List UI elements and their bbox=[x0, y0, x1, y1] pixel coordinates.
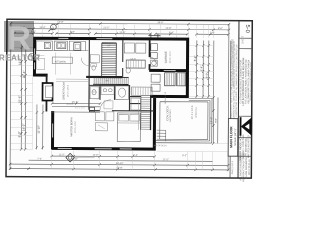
svg-text:53'-8": 53'-8" bbox=[117, 167, 123, 170]
svg-text:11'-6": 11'-6" bbox=[119, 31, 125, 34]
svg-text:SHEET: SHEET bbox=[241, 35, 244, 44]
svg-text:7'-4": 7'-4" bbox=[37, 157, 42, 160]
svg-text:LINE OF DECK: LINE OF DECK bbox=[153, 145, 168, 147]
svg-text:COV. DECK: COV. DECK bbox=[165, 106, 169, 121]
svg-text:REALTOR: REALTOR bbox=[0, 54, 40, 63]
svg-text:14'-2": 14'-2" bbox=[22, 124, 26, 132]
svg-text:15'-6": 15'-6" bbox=[18, 95, 22, 103]
svg-text:R: R bbox=[7, 20, 31, 57]
svg-text:9'-0": 9'-0" bbox=[205, 73, 209, 79]
svg-text:8'-0": 8'-0" bbox=[218, 27, 223, 30]
svg-text:2x6 DECKING: 2x6 DECKING bbox=[170, 109, 172, 122]
svg-text:44'-10": 44'-10" bbox=[116, 162, 124, 165]
svg-text:15'-2 x 18'-4: 15'-2 x 18'-4 bbox=[68, 84, 70, 97]
svg-text:10'-0 x 14'-6: 10'-0 x 14'-6 bbox=[191, 105, 194, 119]
svg-text:9'-0": 9'-0" bbox=[17, 131, 21, 137]
svg-text:21'-2": 21'-2" bbox=[103, 26, 109, 29]
svg-text:MAIN FLOOR: MAIN FLOOR bbox=[229, 126, 233, 148]
svg-text:26'-0": 26'-0" bbox=[157, 21, 163, 24]
svg-text:REV 2 05.21.19: REV 2 05.21.19 bbox=[249, 159, 251, 175]
svg-text:12'-0": 12'-0" bbox=[93, 154, 99, 157]
svg-text:5'-0": 5'-0" bbox=[210, 31, 215, 34]
svg-text:11'-2": 11'-2" bbox=[59, 153, 65, 156]
svg-text:ALL RIGHTS RESERVED: ALL RIGHTS RESERVED bbox=[239, 154, 242, 181]
svg-text:GARAGE: GARAGE bbox=[164, 51, 168, 63]
svg-text:CONTRACTOR TO VERIFY ALL DIMEN: CONTRACTOR TO VERIFY ALL DIMENSIONS PRIO… bbox=[235, 44, 238, 116]
svg-text:17'-2": 17'-2" bbox=[163, 158, 169, 161]
svg-text:6'-4": 6'-4" bbox=[199, 66, 203, 72]
svg-text:6'-2": 6'-2" bbox=[182, 154, 187, 157]
svg-text:NOOK: NOOK bbox=[66, 103, 73, 106]
svg-text:13'-6 x 14'-2: 13'-6 x 14'-2 bbox=[75, 120, 77, 133]
svg-text:53'-8": 53'-8" bbox=[57, 21, 63, 24]
svg-text:12'-4": 12'-4" bbox=[39, 26, 45, 29]
svg-text:PAGE 5 OF 9: PAGE 5 OF 9 bbox=[231, 160, 234, 174]
svg-text:MAY 2019 AS NOTED: MAY 2019 AS NOTED bbox=[247, 135, 250, 158]
svg-text:MUD: MUD bbox=[130, 58, 136, 61]
svg-text:9'-4": 9'-4" bbox=[133, 154, 138, 157]
svg-text:KITCHEN: KITCHEN bbox=[55, 61, 66, 64]
svg-text:14'-8": 14'-8" bbox=[165, 27, 171, 30]
svg-text:9'-2 x 11'-0: 9'-2 x 11'-0 bbox=[75, 107, 86, 109]
svg-text:9'-8": 9'-8" bbox=[215, 118, 218, 123]
svg-text:W.C.: W.C. bbox=[93, 92, 98, 94]
svg-text:DO NOT SCALE DRAWINGS USE WRIT: DO NOT SCALE DRAWINGS USE WRITTEN DIMS bbox=[231, 39, 234, 86]
svg-text:8'-2": 8'-2" bbox=[193, 56, 197, 62]
svg-text:5-0: 5-0 bbox=[244, 25, 250, 33]
svg-text:36" RAIL TYP: 36" RAIL TYP bbox=[164, 91, 167, 104]
svg-text:OPEN RAIL: OPEN RAIL bbox=[195, 106, 198, 118]
svg-text:MASTER BDRM: MASTER BDRM bbox=[69, 118, 73, 137]
svg-text:SCALE 1/4"=1': SCALE 1/4"=1' bbox=[233, 128, 237, 146]
svg-text:9'-8": 9'-8" bbox=[70, 31, 75, 34]
svg-text:11'-10": 11'-10" bbox=[37, 125, 41, 134]
svg-text:20'-4": 20'-4" bbox=[22, 71, 26, 79]
svg-text:DRAWN RW CHECKED DM MAY 2019: DRAWN RW CHECKED DM MAY 2019 bbox=[249, 62, 252, 101]
svg-text:DN: DN bbox=[106, 80, 110, 82]
svg-text:PLANS PROHIBITED: PLANS PROHIBITED bbox=[245, 156, 248, 179]
svg-text:UP: UP bbox=[107, 45, 111, 47]
svg-text:GREAT ROOM: GREAT ROOM bbox=[61, 82, 65, 100]
svg-text:20'-8 x 13'-2: 20'-8 x 13'-2 bbox=[170, 51, 172, 64]
svg-text:8'-4": 8'-4" bbox=[169, 31, 174, 34]
